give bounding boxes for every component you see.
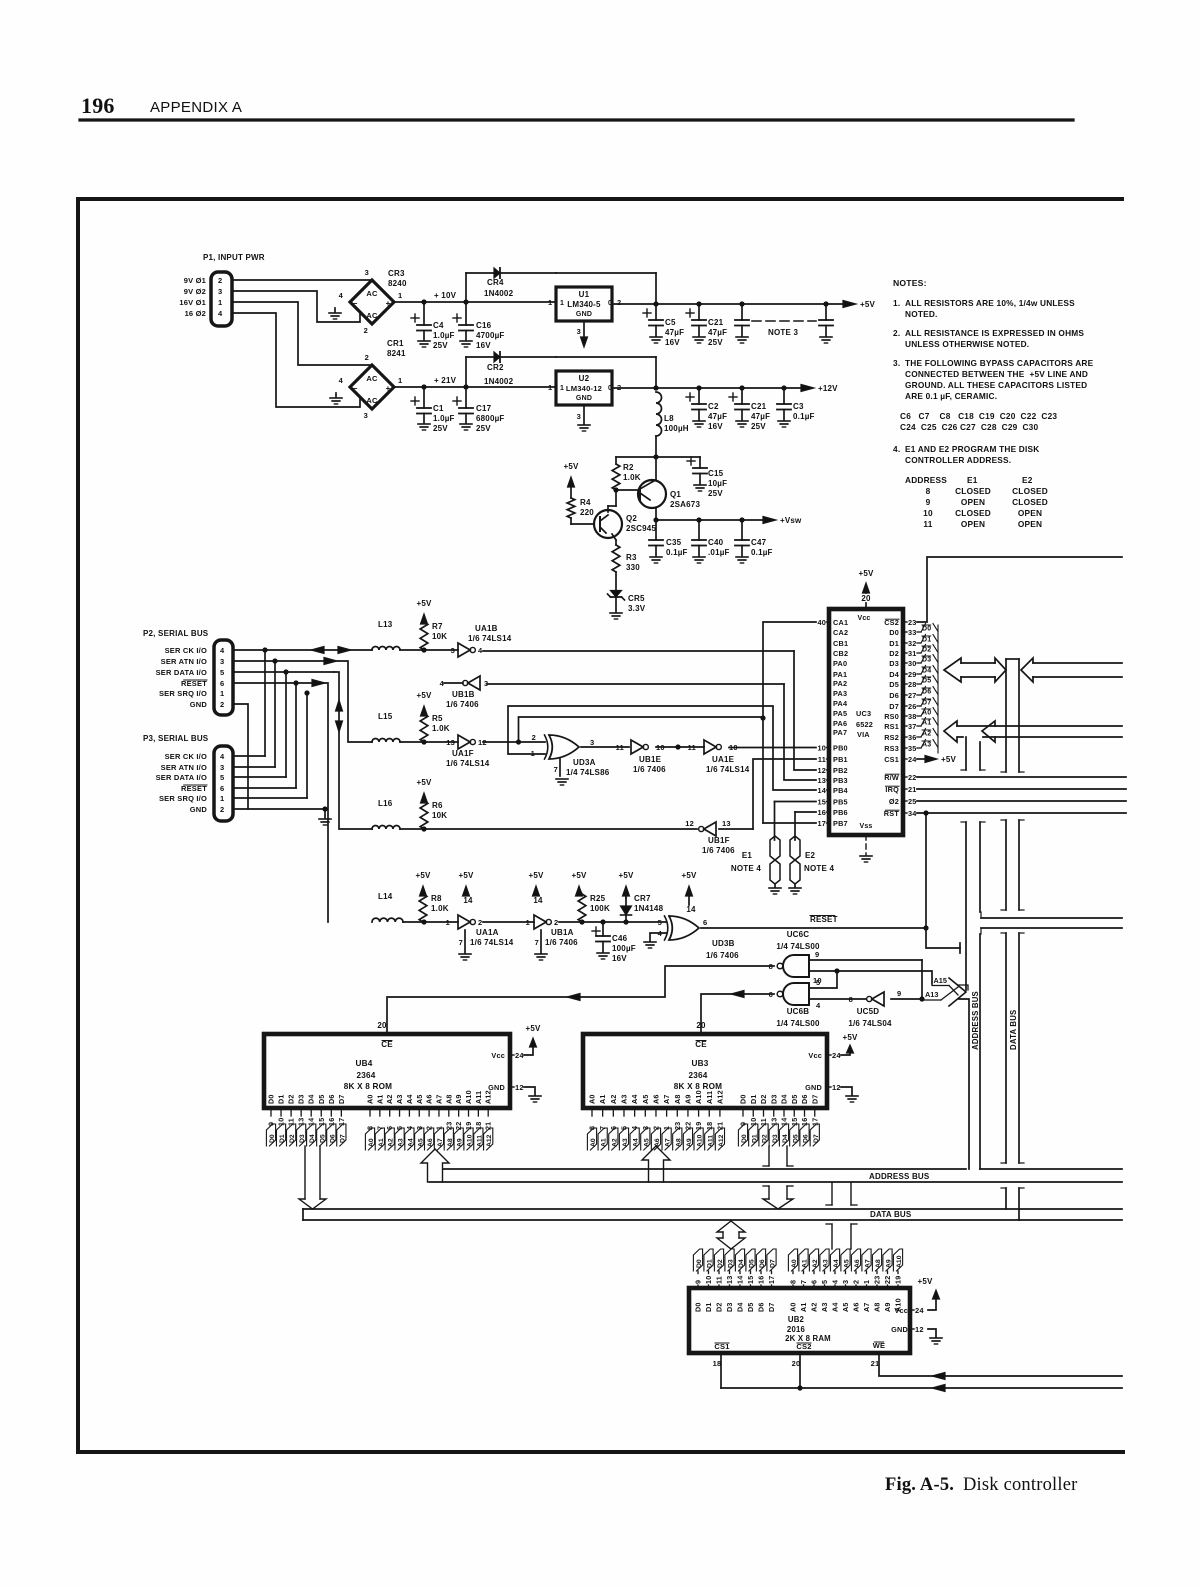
+Vsw arrow xyxy=(763,517,776,524)
XOR gate UD3A 1/4 74LS86 xyxy=(549,735,579,759)
svg-text:A2: A2 xyxy=(609,1094,618,1104)
svg-text:21: 21 xyxy=(715,1122,724,1130)
svg-text:1.0µF: 1.0µF xyxy=(433,414,455,423)
UB4 A hex labels xyxy=(365,1128,493,1150)
svg-text:23: 23 xyxy=(444,1122,453,1130)
svg-text:47µF: 47µF xyxy=(751,412,770,421)
inductor L15 xyxy=(372,739,400,742)
notes block xyxy=(893,278,1094,529)
svg-text:D6: D6 xyxy=(327,1094,336,1104)
svg-text:L15: L15 xyxy=(378,712,393,721)
svg-text:A5: A5 xyxy=(417,1138,424,1147)
svg-text:D2: D2 xyxy=(759,1094,768,1104)
svg-text:25V: 25V xyxy=(476,424,491,433)
svg-text:C40: C40 xyxy=(708,538,724,547)
capacitor C46 100uF 16V xyxy=(602,922,604,936)
svg-text:A7: A7 xyxy=(865,1259,872,1268)
IC UB2 2016 2Kx8 RAM box xyxy=(689,1288,910,1353)
svg-text:1.0K: 1.0K xyxy=(431,904,449,913)
svg-text:D3: D3 xyxy=(297,1094,306,1104)
arrow lower tail becomes addr channel left line xyxy=(959,999,969,1169)
svg-text:31: 31 xyxy=(908,649,917,658)
svg-text:1N4148: 1N4148 xyxy=(634,904,664,913)
svg-text:D7: D7 xyxy=(810,1094,819,1104)
svg-text:OPEN: OPEN xyxy=(961,497,985,507)
svg-text:A0: A0 xyxy=(789,1302,798,1312)
svg-text:4700µF: 4700µF xyxy=(476,331,505,340)
svg-text:8K X 8 ROM: 8K X 8 ROM xyxy=(344,1082,392,1091)
svg-text:2: 2 xyxy=(532,733,536,742)
svg-text:A10: A10 xyxy=(896,1255,903,1268)
svg-text:ARE 0.1 µF, CERAMIC.: ARE 0.1 µF, CERAMIC. xyxy=(905,391,997,401)
wire E2 to VIA PB6 xyxy=(795,811,816,813)
svg-text:A3: A3 xyxy=(395,1094,404,1104)
svg-text:PA7: PA7 xyxy=(833,728,847,737)
svg-text:E2: E2 xyxy=(805,851,816,860)
svg-text:GND: GND xyxy=(891,1325,908,1334)
svg-text:A15: A15 xyxy=(934,976,947,985)
note3 capacitor b xyxy=(825,304,827,320)
svg-text:17: 17 xyxy=(817,819,826,828)
resistor R7 10K xyxy=(420,622,428,650)
svg-text:L8: L8 xyxy=(664,414,674,423)
zener CR5 3.3V xyxy=(615,572,617,590)
+5V output rail from U1 xyxy=(612,303,844,305)
svg-text:D4: D4 xyxy=(780,1094,789,1104)
svg-text:CR5: CR5 xyxy=(628,594,645,603)
address-to-UB2 bracket pair xyxy=(831,1183,833,1205)
wire UA1A to UB1A xyxy=(483,921,534,923)
svg-text:17: 17 xyxy=(337,1118,346,1126)
svg-text:RS1: RS1 xyxy=(884,722,899,731)
resistor R6 10K xyxy=(420,801,428,829)
svg-text:1/4 74LS00: 1/4 74LS00 xyxy=(776,942,820,951)
svg-text:A4: A4 xyxy=(405,1094,414,1104)
node CS junction xyxy=(797,1385,802,1390)
capacitor C21 47uF 25V xyxy=(698,304,700,320)
UA1A pin7 ground xyxy=(464,930,466,953)
data-to-UB2 double arrow xyxy=(717,1221,745,1232)
svg-text:5: 5 xyxy=(220,668,224,677)
wire UB1F input to VIA PB1 xyxy=(719,828,753,830)
UB2 WE pin 21 wire xyxy=(879,1353,1122,1376)
svg-text:UB2: UB2 xyxy=(788,1315,805,1324)
svg-text:D4: D4 xyxy=(309,1134,316,1143)
svg-text:14: 14 xyxy=(736,1276,745,1284)
svg-text:D2: D2 xyxy=(715,1302,724,1312)
svg-text:5: 5 xyxy=(816,978,820,987)
svg-text:A10: A10 xyxy=(464,1090,473,1104)
svg-text:21: 21 xyxy=(871,1359,880,1368)
svg-text:D3: D3 xyxy=(772,1134,779,1143)
NAND UC6C 1/4 74LS00 (mirrored) xyxy=(783,955,809,977)
svg-text:+5V: +5V xyxy=(528,871,544,880)
svg-text:1.0µF: 1.0µF xyxy=(433,331,455,340)
svg-text:A0: A0 xyxy=(590,1138,597,1147)
wire L16 to UB1F xyxy=(400,828,697,830)
svg-text:13: 13 xyxy=(446,738,455,747)
svg-text:C16: C16 xyxy=(476,321,492,330)
svg-text:A3: A3 xyxy=(619,1094,628,1104)
addr channel crossing hooks xyxy=(961,769,966,771)
svg-text:+5V: +5V xyxy=(860,300,876,309)
svg-text:PB6: PB6 xyxy=(833,808,848,817)
UB2 CS1 pin 18 wire xyxy=(720,1353,722,1388)
svg-text:A10: A10 xyxy=(694,1090,703,1104)
wire UB1B input toward VIA PB3 xyxy=(487,683,784,685)
svg-text:UA1F: UA1F xyxy=(452,749,474,758)
svg-text:6800µF: 6800µF xyxy=(476,414,505,423)
node PB0 branch xyxy=(675,744,680,749)
svg-text:VIA: VIA xyxy=(857,730,870,739)
svg-text:D6: D6 xyxy=(803,1134,810,1143)
svg-text:PA0: PA0 xyxy=(833,659,847,668)
svg-text:A8: A8 xyxy=(875,1259,882,1268)
UC6B input wires xyxy=(809,971,837,988)
inductor L8 100uH xyxy=(656,392,662,436)
svg-text:12: 12 xyxy=(832,1083,841,1092)
svg-text:8: 8 xyxy=(849,995,853,1004)
svg-text:20: 20 xyxy=(696,1021,706,1030)
svg-text:A5: A5 xyxy=(641,1094,650,1104)
svg-text:10: 10 xyxy=(277,1118,286,1126)
svg-text:1/6 7406: 1/6 7406 xyxy=(706,951,739,960)
svg-text:10K: 10K xyxy=(432,811,447,820)
svg-text:100µF: 100µF xyxy=(612,944,636,953)
svg-text:16V Ø1: 16V Ø1 xyxy=(179,298,206,307)
svg-text:1/6 7406: 1/6 7406 xyxy=(633,765,666,774)
junction dots on serial lines xyxy=(262,647,267,652)
svg-text:23: 23 xyxy=(873,1276,882,1284)
svg-text:D6: D6 xyxy=(889,691,899,700)
svg-text:+12V: +12V xyxy=(818,384,838,393)
svg-text:AC: AC xyxy=(366,289,378,298)
svg-text:5: 5 xyxy=(658,918,662,927)
chip-select tap lines to right edge xyxy=(981,917,1122,919)
ground at CR3 xyxy=(334,308,336,312)
svg-text:1/4 74LS86: 1/4 74LS86 xyxy=(566,768,610,777)
capacitor C2 47uF 16V xyxy=(698,388,700,404)
wire P1.2 to CR3 bridge top xyxy=(232,279,372,281)
svg-text:21: 21 xyxy=(908,785,917,794)
svg-text:+ 21V: + 21V xyxy=(434,376,457,385)
svg-text:15: 15 xyxy=(817,798,826,807)
svg-text:1/4 74LS00: 1/4 74LS00 xyxy=(776,1019,820,1028)
wire UC6B output to UB3 CE xyxy=(701,994,774,1034)
wire P1.1 to CR1 top xyxy=(232,302,372,365)
svg-text:A3: A3 xyxy=(820,1302,829,1312)
svg-text:PA3: PA3 xyxy=(833,689,847,698)
svg-text:1: 1 xyxy=(862,1280,871,1284)
svg-text:CONTROLLER ADDRESS.: CONTROLLER ADDRESS. xyxy=(905,455,1011,465)
svg-text:7: 7 xyxy=(535,938,539,947)
node C17 xyxy=(463,384,468,389)
header rule xyxy=(80,118,1073,121)
wire SER ATN to L15 xyxy=(233,660,324,662)
E2 jumper NOTE 4 xyxy=(794,812,796,840)
svg-text:Vcc: Vcc xyxy=(808,1051,822,1060)
capacitor C3 0.1uF xyxy=(783,388,785,404)
wire SER RESET to L14 drop xyxy=(233,682,312,684)
svg-text:A9: A9 xyxy=(683,1094,692,1104)
svg-text:A12: A12 xyxy=(715,1090,724,1104)
svg-text:13: 13 xyxy=(817,776,826,785)
svg-text:P1, INPUT PWR: P1, INPUT PWR xyxy=(203,253,265,262)
VIA left pin numbers xyxy=(817,618,829,828)
svg-text:22: 22 xyxy=(883,1276,892,1284)
svg-text:PB2: PB2 xyxy=(833,766,848,775)
right-pointing arrow into data channel xyxy=(995,658,1006,682)
svg-text:29: 29 xyxy=(908,670,917,679)
svg-text:1: 1 xyxy=(548,298,552,307)
svg-text:1.0K: 1.0K xyxy=(623,473,641,482)
UB3 D bracket crossing marks at address channel xyxy=(763,1165,769,1167)
inductor L13 xyxy=(372,647,400,651)
svg-text:1/6 74LS04: 1/6 74LS04 xyxy=(848,1019,892,1028)
svg-text:8: 8 xyxy=(926,486,931,496)
svg-text:C21: C21 xyxy=(751,402,767,411)
svg-text:14: 14 xyxy=(533,896,543,905)
svg-text:1: 1 xyxy=(398,291,402,300)
svg-text:OPEN: OPEN xyxy=(961,519,985,529)
svg-text:PA1: PA1 xyxy=(833,670,847,679)
UB4 D hex labels xyxy=(266,1124,346,1146)
svg-text:+5V: +5V xyxy=(415,871,431,880)
wire UB1E to UA1E xyxy=(656,746,704,748)
svg-text:1: 1 xyxy=(446,918,450,927)
svg-text:UB3: UB3 xyxy=(692,1059,709,1068)
svg-text:D3: D3 xyxy=(728,1259,735,1268)
inverter UA1E 1/6 74LS14 xyxy=(704,740,716,754)
svg-text:100µH: 100µH xyxy=(664,424,689,433)
svg-text:D4: D4 xyxy=(782,1134,789,1143)
capacitor C17 6800uF 25V xyxy=(465,387,467,408)
svg-text:14: 14 xyxy=(463,896,473,905)
node R5 xyxy=(421,739,426,744)
UB2 D hex labels xyxy=(693,1249,776,1271)
node C5 xyxy=(653,301,658,306)
svg-text:D6: D6 xyxy=(759,1259,766,1268)
svg-text:D0: D0 xyxy=(694,1302,703,1312)
svg-text:2: 2 xyxy=(365,353,369,362)
inductor L14 xyxy=(372,918,403,922)
capacitor C40 .01uF xyxy=(698,520,700,540)
svg-text:D2: D2 xyxy=(762,1134,769,1143)
UC5D input wire from A13 node xyxy=(891,998,922,1000)
svg-text:8240: 8240 xyxy=(388,279,407,288)
UC6C input wire 10 to A15 label xyxy=(809,971,932,984)
wire drop to VIA PB7 xyxy=(763,822,816,824)
svg-text:RS0: RS0 xyxy=(884,712,899,721)
+Vsw rail xyxy=(656,519,764,521)
svg-text:NOTE 4: NOTE 4 xyxy=(804,864,834,873)
svg-text:CR4: CR4 xyxy=(487,278,504,287)
svg-text:CR2: CR2 xyxy=(487,363,504,372)
svg-text:6: 6 xyxy=(810,1280,819,1284)
svg-text:SER DATA I/O: SER DATA I/O xyxy=(156,668,207,677)
svg-text:18: 18 xyxy=(713,1359,722,1368)
svg-text:15: 15 xyxy=(317,1118,326,1126)
svg-text:13: 13 xyxy=(769,1118,778,1126)
svg-text:C2: C2 xyxy=(708,402,719,411)
UB2 D pin numbers xyxy=(694,1271,777,1288)
svg-text:A4: A4 xyxy=(407,1138,414,1147)
wire L13 to UA1B xyxy=(400,649,458,651)
svg-text:A3: A3 xyxy=(622,1138,629,1147)
transistor Q1 2SA673 xyxy=(638,480,666,508)
svg-text:A1: A1 xyxy=(799,1302,808,1312)
capacitor C5 47uF 16V xyxy=(655,304,657,320)
svg-text:1/6 7406: 1/6 7406 xyxy=(446,700,479,709)
svg-text:D7: D7 xyxy=(813,1134,820,1143)
schematic border frame (top/left/bottom) xyxy=(78,199,1123,1452)
svg-text:ADDRESS BUS: ADDRESS BUS xyxy=(971,991,980,1050)
P2 gnd pin wire and P3 gnd ground xyxy=(233,704,248,809)
svg-text:Vcc: Vcc xyxy=(894,1306,908,1315)
svg-text:4: 4 xyxy=(218,309,223,318)
svg-text:+5V: +5V xyxy=(416,599,432,608)
svg-text:C17: C17 xyxy=(476,404,492,413)
diode CR7 1N4148 xyxy=(625,916,627,922)
svg-text:PA2: PA2 xyxy=(833,679,847,688)
svg-text:U1: U1 xyxy=(579,290,590,299)
svg-text:SER ATN I/O: SER ATN I/O xyxy=(161,657,207,666)
svg-text:12: 12 xyxy=(515,1083,524,1092)
node C21a xyxy=(696,301,701,306)
svg-text:A9: A9 xyxy=(457,1138,464,1147)
svg-text:47µF: 47µF xyxy=(708,412,727,421)
svg-text:A1: A1 xyxy=(378,1138,385,1147)
node n3a xyxy=(739,301,744,306)
svg-text:11: 11 xyxy=(715,1276,724,1284)
svg-text:ADDRESS: ADDRESS xyxy=(905,475,947,485)
svg-text:3: 3 xyxy=(220,657,224,666)
resistor R4 220 xyxy=(567,498,575,518)
wire SER DATA down to L16 xyxy=(233,671,334,673)
wire UB1A out along reset row xyxy=(559,921,666,923)
svg-text:A4: A4 xyxy=(633,1138,640,1147)
node C46 xyxy=(600,919,605,924)
svg-text:A0: A0 xyxy=(588,1094,597,1104)
svg-text:16: 16 xyxy=(757,1276,766,1284)
svg-text:SER CK I/O: SER CK I/O xyxy=(165,752,207,761)
svg-text:R7: R7 xyxy=(432,622,443,631)
svg-text:4: 4 xyxy=(816,1001,821,1010)
svg-text:D1: D1 xyxy=(277,1094,286,1104)
svg-text:UC6C: UC6C xyxy=(787,930,810,939)
svg-text:AC: AC xyxy=(366,311,378,320)
svg-text:25V: 25V xyxy=(708,489,723,498)
svg-text:A6: A6 xyxy=(427,1138,434,1147)
svg-text:2: 2 xyxy=(478,918,482,927)
svg-text:+ 10V: + 10V xyxy=(434,291,457,300)
svg-text:4: 4 xyxy=(831,1280,840,1284)
node UC6B.5 tie xyxy=(834,968,839,973)
capacitor C15 10uF 25V xyxy=(693,467,707,469)
wire UC6C output to UB4 CE xyxy=(387,966,774,1033)
left arrow right of addr channel xyxy=(982,721,995,742)
svg-text:Vcc: Vcc xyxy=(491,1051,505,1060)
svg-text:2364: 2364 xyxy=(356,1071,375,1080)
svg-text:PB1: PB1 xyxy=(833,755,848,764)
+12V arrow out xyxy=(801,385,814,392)
crossed wires to bus arrow xyxy=(949,986,958,996)
svg-text:47µF: 47µF xyxy=(708,328,727,337)
svg-text:CB1: CB1 xyxy=(833,639,848,648)
svg-text:25V: 25V xyxy=(751,422,766,431)
svg-text:27: 27 xyxy=(908,691,917,700)
XOR in1 feed from y706 line xyxy=(508,706,816,790)
slant label A15 xyxy=(932,976,949,986)
svg-text:C47: C47 xyxy=(751,538,767,547)
svg-text:OPEN: OPEN xyxy=(1018,519,1042,529)
UB3 D hex labels xyxy=(738,1124,819,1146)
svg-text:2016: 2016 xyxy=(787,1325,806,1334)
connector P2 SERIAL BUS xyxy=(143,629,233,715)
svg-text:A9: A9 xyxy=(883,1302,892,1312)
svg-text:A9: A9 xyxy=(454,1094,463,1104)
ground at CR1 xyxy=(335,393,337,397)
svg-text:A2: A2 xyxy=(812,1259,819,1268)
node C16 xyxy=(463,299,468,304)
svg-text:8: 8 xyxy=(789,1280,798,1284)
svg-text:D6: D6 xyxy=(800,1094,809,1104)
resistor R2 1.0K xyxy=(612,464,620,490)
svg-text:D6: D6 xyxy=(757,1302,766,1312)
svg-text:12: 12 xyxy=(915,1325,924,1334)
svg-text:D0: D0 xyxy=(741,1134,748,1143)
node R6 xyxy=(421,826,426,831)
resistor R8 1.0K xyxy=(419,894,427,922)
svg-text:PB7: PB7 xyxy=(833,819,848,828)
svg-text:7: 7 xyxy=(554,765,558,774)
wire SER CK line to L13 xyxy=(233,649,372,651)
connector P1 INPUT PWR xyxy=(179,253,264,326)
capacitor C47 0.1uF xyxy=(741,520,743,540)
svg-text:10: 10 xyxy=(923,508,933,518)
svg-text:A12: A12 xyxy=(484,1090,493,1104)
svg-text:E1: E1 xyxy=(742,851,753,860)
svg-text:D3: D3 xyxy=(889,659,899,668)
svg-text:26: 26 xyxy=(908,702,917,711)
vertical DATA BUS channel xyxy=(1005,659,1007,772)
IC UB4 2364 8Kx8 ROM box xyxy=(264,1034,510,1108)
svg-text:+5V: +5V xyxy=(941,755,957,764)
wire RST pin 34 group xyxy=(917,776,1126,778)
svg-text:1N4002: 1N4002 xyxy=(484,289,514,298)
node CR7 xyxy=(623,919,628,924)
svg-text:R6: R6 xyxy=(432,801,443,810)
svg-text:D5: D5 xyxy=(746,1302,755,1312)
svg-text:6: 6 xyxy=(220,679,224,688)
wire E1 to VIA PB5 xyxy=(775,801,817,803)
svg-text:CLOSED: CLOSED xyxy=(1012,486,1048,496)
svg-text:D1: D1 xyxy=(889,639,899,648)
svg-text:9: 9 xyxy=(926,497,931,507)
svg-text:.01µF: .01µF xyxy=(708,548,730,557)
svg-text:A10: A10 xyxy=(697,1134,704,1147)
svg-text:−: − xyxy=(353,299,358,308)
svg-text:0.1µF: 0.1µF xyxy=(751,548,773,557)
svg-text:A0: A0 xyxy=(366,1094,375,1104)
svg-text:32: 32 xyxy=(908,639,917,648)
svg-text:16: 16 xyxy=(800,1118,809,1126)
svg-text:30: 30 xyxy=(908,659,917,668)
UB2 A labels inside xyxy=(789,1298,903,1312)
svg-text:D2: D2 xyxy=(287,1094,296,1104)
capacitor C4 1.0uF 25V xyxy=(423,302,425,325)
svg-text:APPENDIX A: APPENDIX A xyxy=(150,99,242,116)
